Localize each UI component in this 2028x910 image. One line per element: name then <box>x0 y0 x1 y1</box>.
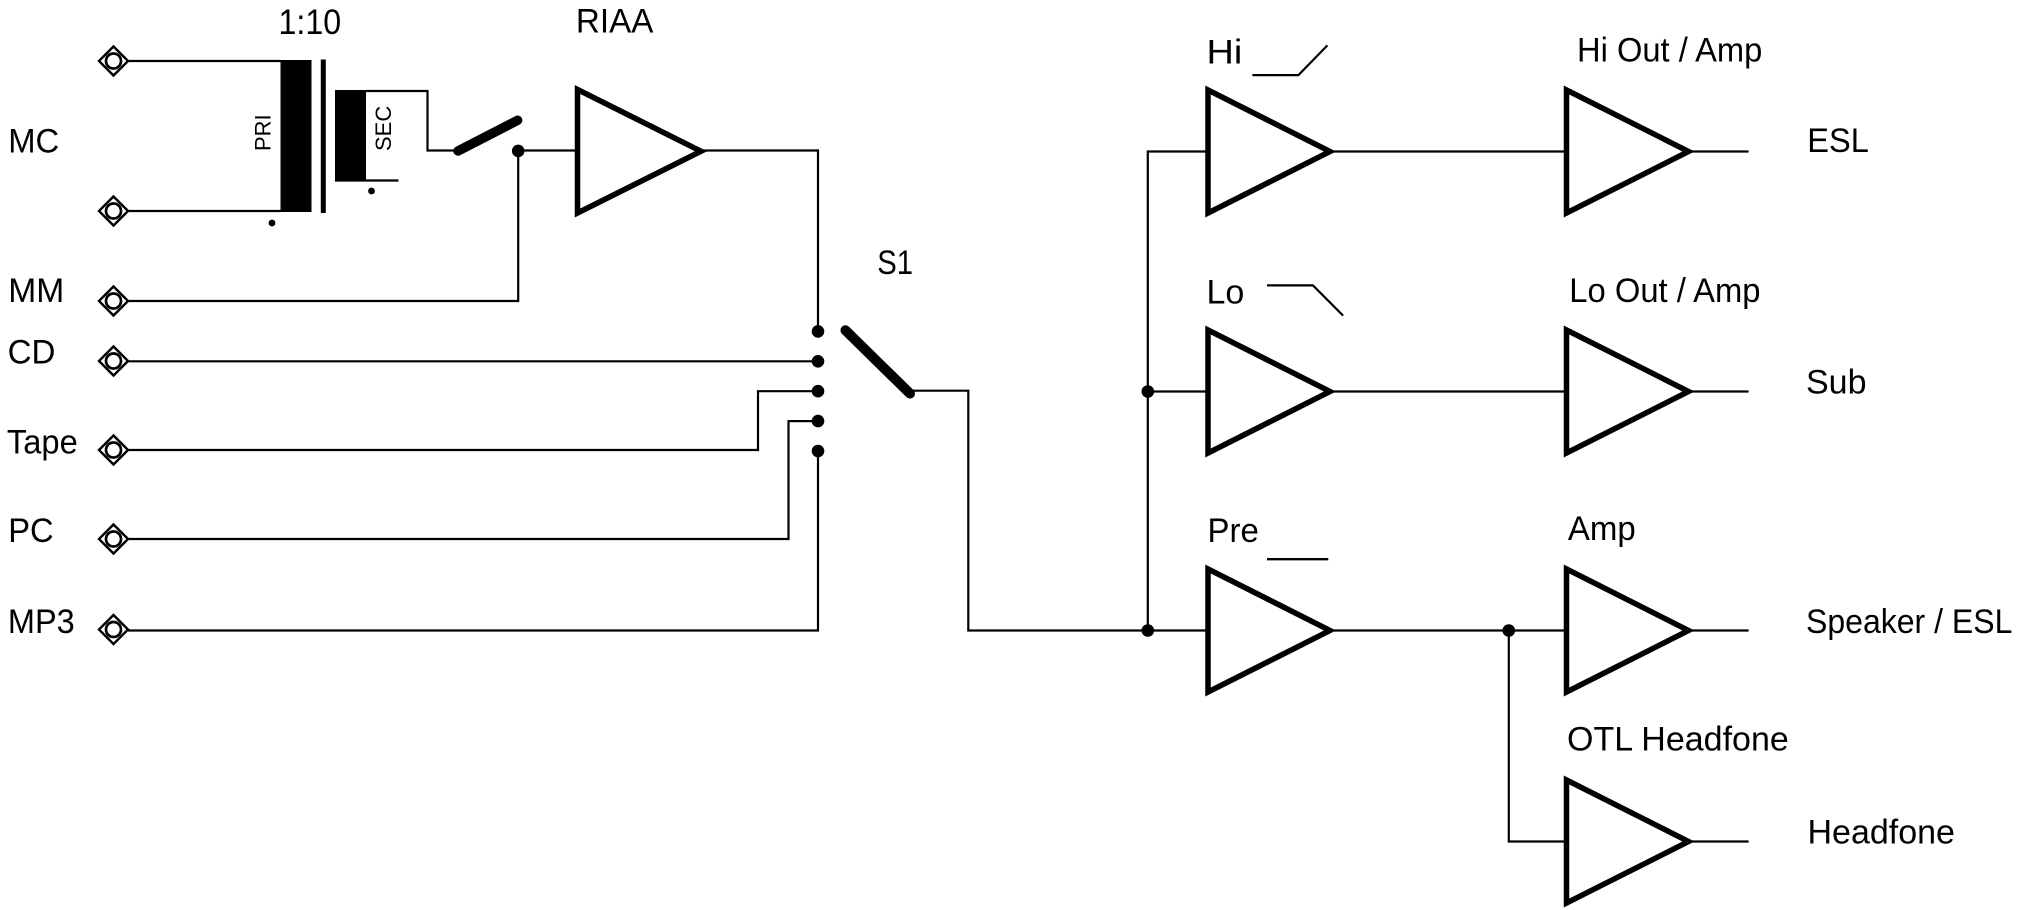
svg-text:Hi Out / Amp: Hi Out / Amp <box>1577 32 1762 70</box>
connector jack PC <box>99 525 128 554</box>
wire switch contact to RIAA input <box>518 149 577 151</box>
amplifier Lo <box>1208 330 1330 453</box>
switch S1 contact 1 <box>812 325 825 338</box>
svg-text:MP3: MP3 <box>8 603 75 641</box>
wire Lo output to Lo Out amp <box>1330 390 1567 392</box>
svg-text:RIAA: RIAA <box>576 3 654 41</box>
connector jack Tape <box>99 436 128 465</box>
svg-text:Tape: Tape <box>7 423 78 461</box>
wire MC- to PRI bottom <box>128 210 281 212</box>
svg-text:Sub: Sub <box>1806 363 1867 401</box>
connector jack MC+ <box>99 47 128 76</box>
svg-text:PC: PC <box>8 512 53 550</box>
wire Headfone amp to Headfone <box>1689 840 1749 842</box>
svg-text:S1: S1 <box>877 244 913 282</box>
svg-text:Hi: Hi <box>1207 33 1243 71</box>
switch S1 contact 3 <box>812 385 825 398</box>
wire Hi output to Hi Out amp <box>1330 150 1567 152</box>
switch MC contact node <box>512 145 525 158</box>
amplifier OTL Headfone <box>1567 780 1689 903</box>
wire SEC top to MC switch <box>366 91 454 151</box>
amplifier Lo Out <box>1567 330 1689 453</box>
wire bus to Lo input <box>1148 390 1208 392</box>
wire Hi Out to ESL <box>1689 150 1749 152</box>
svg-text:MC: MC <box>8 123 59 161</box>
wire Tape to S1 contact 3 <box>128 391 818 450</box>
amplifier Hi Out <box>1567 90 1689 213</box>
wire junction to Headfone amp <box>1509 631 1567 842</box>
wire Pre output to Amp <box>1330 629 1567 631</box>
amplifier Hi <box>1208 90 1330 213</box>
wire RIAA output to S1 contact 1 <box>701 151 818 332</box>
transformer T1 primary winding <box>281 60 312 212</box>
wire Lo Out to Sub <box>1689 390 1749 392</box>
svg-text:Headfone: Headfone <box>1808 814 1955 852</box>
switch S1 contact 2 <box>812 355 825 368</box>
amplifier Amp <box>1567 569 1689 692</box>
svg-text:Speaker / ESL: Speaker / ESL <box>1806 603 2012 641</box>
node bus-Lo junction <box>1142 385 1155 398</box>
wire MM to switch contact node <box>128 151 518 301</box>
switch MC blade <box>458 120 518 151</box>
wire MC+ to PRI top <box>128 60 281 62</box>
connector jack CD <box>99 347 128 376</box>
svg-text:ESL: ESL <box>1807 122 1869 160</box>
svg-text:Pre: Pre <box>1208 512 1259 550</box>
wire CD to S1 contact 2 <box>128 360 818 362</box>
svg-text:MM: MM <box>8 272 64 310</box>
connector jack MM <box>99 287 128 316</box>
switch S1 blade <box>846 330 911 393</box>
symbol Hi response curve <box>1252 45 1327 75</box>
svg-text:Lo Out / Amp: Lo Out / Amp <box>1569 272 1760 310</box>
symbol Lo response curve <box>1267 285 1343 315</box>
wire bus vertical <box>1148 152 1208 631</box>
transformer T1 secondary winding <box>335 90 366 181</box>
wire PC to S1 contact 4 <box>128 421 818 539</box>
svg-text:1:10: 1:10 <box>279 2 342 42</box>
svg-text:Amp: Amp <box>1568 510 1636 548</box>
amplifier Pre <box>1208 569 1330 692</box>
wire S1 common output to bus <box>910 391 1208 631</box>
svg-text:CD: CD <box>8 333 56 371</box>
amplifier RIAA <box>578 90 702 214</box>
svg-text:PRI: PRI <box>251 114 276 151</box>
switch S1 contact 5 <box>812 445 825 458</box>
transformer T1 core <box>321 60 326 214</box>
node bus bottom junction <box>1142 624 1155 637</box>
symbol Pre flat response line <box>1267 558 1328 560</box>
svg-text:OTL Headfone: OTL Headfone <box>1567 721 1789 759</box>
connector jack MP3 <box>99 615 128 644</box>
connector jack MC- <box>99 197 128 226</box>
svg-text:SEC: SEC <box>371 106 396 151</box>
wire MP3 to S1 contact 5 <box>128 451 818 631</box>
switch S1 contact 4 <box>812 415 825 428</box>
wire SEC bottom stub <box>335 179 399 181</box>
transformer T1 secondary phase dot <box>368 188 375 195</box>
node Pre output junction <box>1503 624 1516 637</box>
transformer T1 primary phase dot <box>269 220 276 227</box>
wire Amp to Speaker / ESL <box>1689 629 1749 631</box>
svg-text:Lo: Lo <box>1207 274 1245 312</box>
